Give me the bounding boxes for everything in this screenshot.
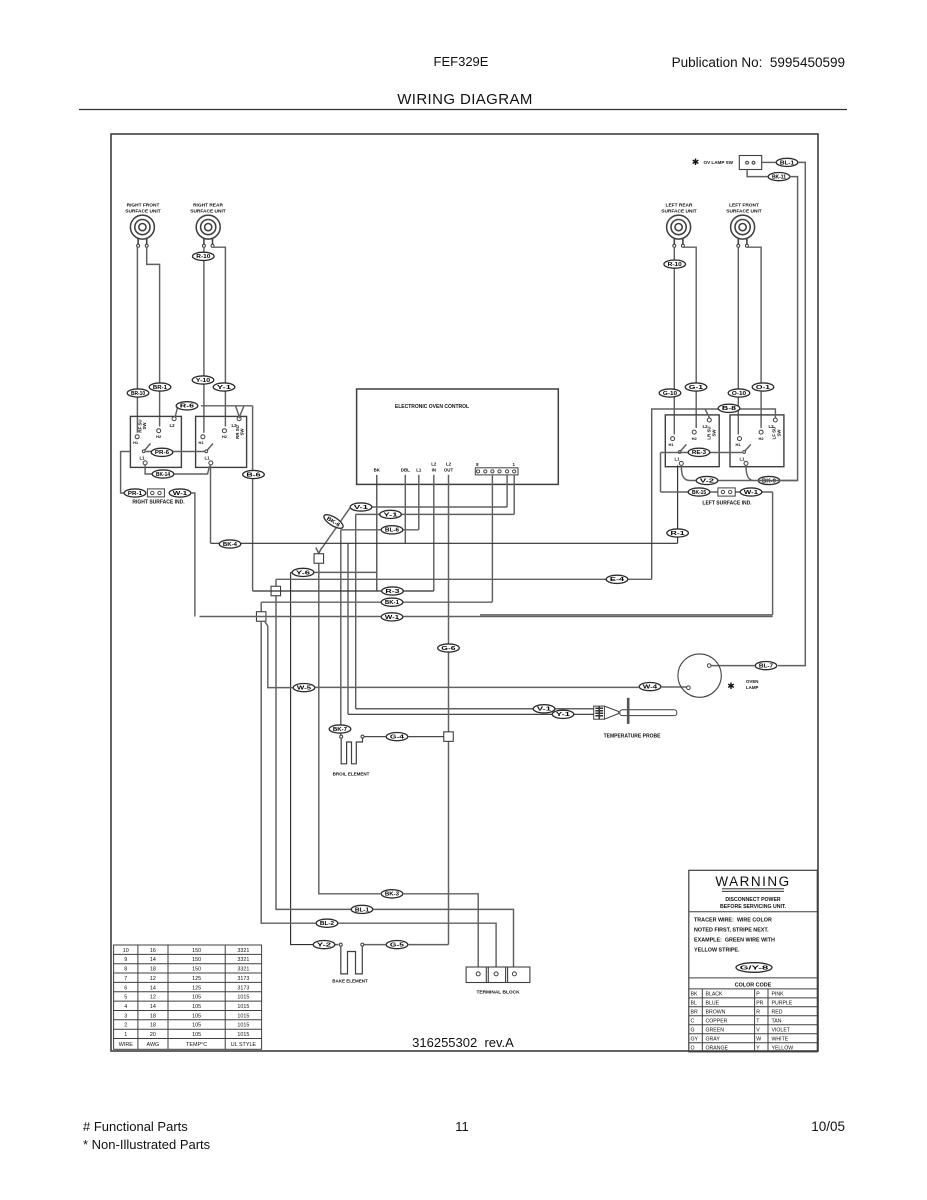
- svg-text:BR-10: BR-10: [131, 391, 145, 397]
- svg-text:R: R: [756, 1009, 760, 1015]
- svg-text:18: 18: [150, 967, 156, 973]
- wire label G-4: [386, 733, 408, 741]
- terminal LR H2: [692, 430, 696, 434]
- svg-text:BL-6: BL-6: [385, 528, 399, 534]
- wire R-6 row: [175, 406, 252, 591]
- warning divider 1: [689, 911, 818, 913]
- svg-text:7: 7: [124, 976, 127, 982]
- wire J3 down: [261, 621, 315, 923]
- wire label R-1: [667, 529, 689, 537]
- oven lamp: [678, 654, 721, 697]
- svg-text:RIGHT FRONT: RIGHT FRONT: [127, 203, 160, 209]
- wire J3 diagonal lamp: [265, 621, 293, 688]
- surface unit coil left rear surface unit: [667, 215, 691, 244]
- terminal LR L1: [679, 461, 683, 465]
- svg-text:150: 150: [192, 957, 201, 963]
- svg-text:316255302 rev.A: 316255302 rev.A: [412, 1035, 514, 1050]
- svg-text:NOTED FIRST, STRIPE NEXT.: NOTED FIRST, STRIPE NEXT.: [694, 928, 769, 934]
- svg-text:R-10: R-10: [196, 254, 210, 260]
- svg-text:EXAMPLE: GREEN WIRE WITH: EXAMPLE: GREEN WIRE WITH: [694, 938, 775, 944]
- temperature probe connector: [594, 706, 619, 719]
- bake element: [341, 946, 363, 974]
- wire label V-1: [350, 503, 372, 511]
- svg-text:B-6: B-6: [246, 472, 260, 478]
- svg-text:PR-6: PR-6: [155, 450, 169, 456]
- svg-text:3: 3: [124, 1013, 127, 1019]
- svg-text:YELLOW STRIPE.: YELLOW STRIPE.: [694, 948, 740, 954]
- svg-text:18: 18: [150, 1023, 156, 1029]
- svg-text:3321: 3321: [237, 967, 249, 973]
- wire label BK-7: [329, 725, 351, 733]
- svg-text:G-1: G-1: [689, 385, 703, 391]
- terminal lamp sw pin1: [746, 161, 749, 164]
- svg-text:H2: H2: [759, 436, 765, 441]
- wire label BK-15: [688, 488, 710, 496]
- svg-text:105: 105: [192, 995, 201, 1001]
- terminal EOC strip pin 4: [506, 470, 509, 473]
- wire RF row to indicator: [121, 452, 131, 494]
- wire title rule: [79, 109, 847, 111]
- svg-text:PINK: PINK: [772, 992, 785, 998]
- wire right rail down to lamp: [778, 162, 805, 665]
- switch LR SU SW box: [665, 415, 719, 467]
- terminal terminal block pin2: [494, 972, 498, 976]
- svg-text:105: 105: [192, 1013, 201, 1019]
- oven lamp switch box: [739, 156, 761, 170]
- svg-text:12: 12: [150, 995, 156, 1001]
- wire probe upper feeder h: [356, 708, 594, 710]
- wire label BK-6: [322, 512, 345, 531]
- svg-text:T: T: [756, 1018, 760, 1024]
- svg-text:VIOLET: VIOLET: [772, 1027, 791, 1033]
- wire row 603: [261, 602, 492, 612]
- svg-text:PR: PR: [756, 1001, 763, 1007]
- svg-text:COLOR CODE: COLOR CODE: [735, 983, 772, 989]
- temperature probe flange: [627, 698, 630, 724]
- svg-text:18: 18: [150, 1013, 156, 1019]
- terminal LF L2: [773, 418, 777, 422]
- svg-text:L2: L2: [169, 423, 175, 428]
- surface unit coil left front surface unit: [731, 215, 755, 244]
- wire lamp sw to right rail: [762, 161, 776, 163]
- wire row C: [339, 923, 497, 967]
- wire row A: [319, 563, 478, 967]
- svg-text:BL-2: BL-2: [320, 921, 334, 927]
- svg-text:SURFACE UNIT: SURFACE UNIT: [125, 209, 161, 215]
- terminal right rear surface unit term left: [202, 244, 205, 247]
- svg-text:WHITE: WHITE: [772, 1036, 789, 1042]
- terminal EOC strip pin 3: [498, 470, 501, 473]
- terminal right front surface unit term left: [137, 244, 140, 247]
- wire label BL-2: [316, 919, 338, 927]
- svg-text:TEMPERATURE PROBE: TEMPERATURE PROBE: [604, 734, 662, 740]
- svg-text:LEFT REAR: LEFT REAR: [666, 203, 693, 209]
- wire RF L1 drop row: [145, 465, 210, 474]
- svg-text:BK-15: BK-15: [692, 490, 706, 496]
- svg-text:BK-14: BK-14: [156, 472, 170, 478]
- wire row 579: [276, 578, 652, 580]
- wire row 613 double: [480, 614, 773, 616]
- wire label W-1 left ind: [740, 488, 762, 496]
- wire label Y-2: [313, 941, 335, 949]
- wire label Y-1 rr: [213, 383, 235, 391]
- indicator lamp right surface: [147, 489, 164, 497]
- svg-text:Y-1: Y-1: [217, 385, 231, 391]
- svg-text:DBL: DBL: [401, 468, 410, 473]
- svg-text:YELLOW: YELLOW: [772, 1045, 794, 1051]
- svg-text:TERMINAL BLOCK: TERMINAL BLOCK: [476, 990, 520, 996]
- svg-text:BK-3: BK-3: [385, 892, 399, 898]
- switch LF SU SW box: [730, 415, 784, 467]
- wire label Y-1 mid: [380, 510, 402, 518]
- svg-text:1: 1: [124, 1032, 127, 1038]
- svg-text:BK-1: BK-1: [385, 600, 399, 606]
- wire L2IN pin wire: [433, 475, 435, 591]
- svg-text:BL: BL: [691, 1001, 697, 1007]
- svg-text:G-4: G-4: [390, 735, 404, 741]
- svg-text:11: 11: [455, 1119, 469, 1134]
- terminal RR L1: [209, 461, 213, 465]
- svg-text:1: 1: [512, 462, 515, 467]
- junction junction J3: [256, 612, 266, 622]
- svg-text:14: 14: [150, 957, 156, 963]
- wire label W-4: [639, 683, 661, 691]
- svg-text:W-1: W-1: [744, 490, 758, 496]
- wire label R-3: [382, 587, 404, 595]
- wire RF switch arm: [144, 444, 151, 451]
- wire B-8 row: [652, 409, 776, 579]
- svg-text:G-5: G-5: [390, 943, 404, 949]
- wire row B: [374, 909, 514, 967]
- svg-text:H2: H2: [692, 436, 698, 441]
- svg-text:Y: Y: [756, 1045, 760, 1051]
- warning box: [689, 870, 818, 1051]
- wire LF switch arm: [744, 444, 750, 451]
- svg-text:G: G: [691, 1027, 695, 1033]
- wire left ind row: [661, 491, 773, 493]
- broil element: [341, 738, 362, 764]
- svg-text:L2: L2: [231, 423, 237, 428]
- wire label B-6: [243, 470, 265, 478]
- wire label BK-1: [381, 598, 403, 606]
- wire row 591: [253, 590, 434, 592]
- terminal LF H2: [759, 430, 763, 434]
- wire L1 row: [341, 530, 419, 735]
- svg-text:BK-4: BK-4: [223, 542, 237, 548]
- wire label BL-7: [755, 662, 777, 670]
- wire left ind row drop: [772, 492, 774, 615]
- svg-text:L2: L2: [702, 424, 708, 429]
- svg-text:TRACER WIRE: WIRE COLOR: TRACER WIRE: WIRE COLOR: [694, 918, 772, 924]
- wire label Y-6: [292, 568, 314, 576]
- wire label BK-14: [152, 470, 174, 478]
- wire BK pin wire: [376, 475, 378, 591]
- svg-text:R-1: R-1: [671, 531, 685, 537]
- svg-text:14: 14: [150, 1004, 156, 1010]
- svg-text:150: 150: [192, 967, 201, 973]
- svg-text:O-10: O-10: [732, 391, 746, 397]
- svg-text:✱: ✱: [692, 157, 700, 167]
- warning divider 2: [689, 977, 818, 979]
- terminal left front surface unit term left: [737, 244, 740, 247]
- terminal LF pivot: [743, 451, 746, 454]
- wire LR L1 branch row: [681, 465, 797, 480]
- svg-text:OUT: OUT: [444, 468, 454, 473]
- wire label BL-1 rowB: [351, 905, 373, 913]
- svg-text:BK: BK: [374, 468, 381, 473]
- svg-text:BK-7: BK-7: [333, 727, 347, 733]
- terminal right rear surface unit term right: [211, 244, 214, 247]
- svg-text:RED: RED: [772, 1009, 783, 1015]
- wire label PR-1: [124, 489, 146, 497]
- svg-text:Y-1: Y-1: [556, 712, 570, 718]
- terminal left rear surface unit term right: [681, 244, 684, 247]
- wire row D right: [335, 944, 449, 946]
- svg-text:E-4: E-4: [610, 577, 624, 583]
- terminal EOC strip pin 2: [491, 470, 494, 473]
- switch RF SU SW box: [130, 416, 181, 467]
- wire label O-10: [728, 389, 750, 397]
- svg-text:9: 9: [124, 957, 127, 963]
- svg-text:105: 105: [192, 1023, 201, 1029]
- svg-text:BK: BK: [691, 992, 698, 998]
- wire LR coil right lead: [683, 247, 696, 428]
- svg-text:RE-3: RE-3: [692, 450, 706, 456]
- svg-text:BL-1: BL-1: [780, 160, 794, 166]
- wire RF coil left lead: [136, 247, 138, 433]
- wire label G-5: [386, 941, 408, 949]
- svg-text:3173: 3173: [237, 985, 249, 991]
- svg-text:L2: L2: [768, 424, 774, 429]
- terminal broil term left: [340, 735, 343, 738]
- svg-text:R-10: R-10: [668, 262, 682, 268]
- svg-text:125: 125: [192, 976, 201, 982]
- svg-text:10/05: 10/05: [811, 1119, 845, 1134]
- svg-text:OVEN: OVEN: [746, 679, 758, 684]
- svg-text:V: V: [756, 1027, 760, 1033]
- svg-text:H1: H1: [198, 440, 204, 445]
- color code table text: [691, 992, 794, 1052]
- svg-text:SURFACE UNIT: SURFACE UNIT: [726, 209, 762, 215]
- wire gauge table text: [119, 948, 257, 1048]
- terminal LR pivot: [678, 451, 681, 454]
- color code table: [689, 989, 818, 1052]
- wire label Y-1 probe: [552, 710, 574, 718]
- junction junction J2: [271, 586, 281, 596]
- svg-text:BL-1: BL-1: [355, 907, 369, 913]
- wire RR switch arm: [207, 444, 213, 451]
- wire lamp right lead: [711, 665, 755, 667]
- wire LR coil left lead: [673, 247, 675, 434]
- svg-text:PURPLE: PURPLE: [772, 1001, 793, 1007]
- surface unit coil right front surface unit: [130, 215, 154, 244]
- wire LR switch arm: [680, 444, 686, 451]
- wire LF coil right lead: [747, 247, 761, 428]
- wire row 579 left drop: [276, 579, 351, 909]
- wire label G/Y-8 example: [736, 963, 772, 973]
- svg-text:WIRE: WIRE: [119, 1042, 133, 1048]
- svg-text:H1: H1: [735, 442, 741, 447]
- svg-text:FEF329E: FEF329E: [434, 54, 489, 69]
- wire label W-1 row: [381, 613, 403, 621]
- svg-text:ELECTRONIC OVEN CONTROL: ELECTRONIC OVEN CONTROL: [395, 404, 469, 410]
- terminal LR H1: [671, 437, 675, 441]
- terminal LR L2: [707, 418, 711, 422]
- terminal lamp sw pin2: [752, 161, 755, 164]
- svg-text:TAN: TAN: [772, 1018, 782, 1024]
- terminal right front surface unit term right: [145, 244, 148, 247]
- wire label BK-9: [758, 476, 780, 484]
- svg-text:6: 6: [124, 985, 127, 991]
- svg-text:BL-7: BL-7: [759, 664, 773, 670]
- svg-text:14: 14: [150, 985, 156, 991]
- svg-text:COPPER: COPPER: [706, 1018, 728, 1024]
- svg-text:1015: 1015: [237, 1032, 249, 1038]
- svg-text:105: 105: [192, 1032, 201, 1038]
- svg-text:TEMP°C: TEMP°C: [186, 1042, 207, 1048]
- terminal terminal block pin3: [512, 972, 516, 976]
- svg-text:10: 10: [123, 948, 129, 954]
- svg-text:PR-1: PR-1: [128, 491, 142, 497]
- wire label W-5: [293, 684, 315, 692]
- svg-text:V-1: V-1: [354, 505, 368, 511]
- wire LF coil left lead: [737, 247, 739, 434]
- svg-text:3173: 3173: [237, 976, 249, 982]
- wire label Y-10 rr: [192, 376, 214, 384]
- svg-text:W-1: W-1: [173, 491, 187, 497]
- terminal block: [466, 967, 530, 983]
- svg-text:L1: L1: [204, 456, 210, 461]
- svg-text:G/Y-8: G/Y-8: [740, 965, 769, 971]
- terminal RR pivot: [205, 450, 208, 453]
- svg-text:P: P: [756, 992, 760, 998]
- terminal RF H1: [135, 435, 139, 439]
- svg-text:V-2: V-2: [700, 478, 714, 484]
- wire RF-RR pivot link: [146, 451, 205, 453]
- wire label B-8: [718, 404, 740, 412]
- wire label G-6: [438, 644, 460, 652]
- svg-text:L2: L2: [431, 462, 437, 467]
- svg-text:Publication No: 5995450599: Publication No: 5995450599: [672, 55, 845, 70]
- svg-text:WIRING DIAGRAM: WIRING DIAGRAM: [397, 91, 533, 108]
- wire L1 pin wire: [418, 475, 420, 530]
- terminal lamp term upper: [707, 664, 711, 668]
- wire RF coil right lead: [147, 247, 160, 426]
- svg-text:Y-6: Y-6: [296, 570, 310, 576]
- svg-text:# Functional Parts: # Functional Parts: [83, 1119, 188, 1134]
- terminal bake term right: [361, 943, 364, 946]
- wire label V-2: [696, 476, 718, 484]
- svg-text:BROWN: BROWN: [706, 1009, 726, 1015]
- svg-text:L2: L2: [446, 462, 452, 467]
- wire LR L1 drop: [677, 465, 679, 543]
- wire label PR-6: [151, 448, 173, 456]
- svg-text:OV LAMP SW: OV LAMP SW: [704, 160, 734, 165]
- svg-text:V-1: V-1: [537, 707, 551, 713]
- EOC connector strip: [475, 468, 518, 475]
- wire label BK-11: [768, 173, 790, 181]
- svg-text:* Non-Illustrated Parts: * Non-Illustrated Parts: [83, 1137, 211, 1152]
- wire label G-1: [685, 383, 707, 391]
- wire row 543: [211, 542, 678, 544]
- svg-text:Y-2: Y-2: [317, 943, 331, 949]
- svg-text:1015: 1015: [237, 1023, 249, 1029]
- terminal RF H2: [157, 429, 161, 433]
- svg-text:GRAY: GRAY: [706, 1036, 721, 1042]
- terminal RR L2: [237, 417, 241, 421]
- terminal left rear surface unit term left: [673, 244, 676, 247]
- svg-text:Y-1: Y-1: [383, 512, 397, 518]
- wire label R-6: [176, 402, 198, 410]
- svg-text:DISCONNECT POWER: DISCONNECT POWER: [725, 897, 781, 903]
- wire label G-10: [659, 389, 681, 397]
- svg-text:SW: SW: [712, 429, 717, 437]
- wire label BK-4: [219, 540, 241, 548]
- svg-text:RIGHT SURFACE IND.: RIGHT SURFACE IND.: [132, 500, 185, 506]
- svg-text:H1: H1: [668, 442, 674, 447]
- wire row 572: [291, 571, 377, 573]
- svg-text:GY: GY: [691, 1036, 699, 1042]
- wire row 616: [200, 616, 773, 618]
- svg-text:105: 105: [192, 1004, 201, 1010]
- wire indicator row to drop: [192, 493, 195, 617]
- svg-text:L1: L1: [674, 457, 680, 462]
- svg-text:R-3: R-3: [385, 589, 399, 595]
- svg-text:ORANGE: ORANGE: [706, 1045, 729, 1051]
- svg-text:WARNING: WARNING: [715, 874, 790, 889]
- wire probe lower feeder h: [348, 713, 594, 715]
- svg-text:BK-9: BK-9: [762, 478, 776, 484]
- svg-text:4: 4: [124, 1004, 127, 1010]
- surface unit coil right rear surface unit: [196, 215, 220, 244]
- svg-text:C: C: [691, 1018, 695, 1024]
- svg-text:W-1: W-1: [385, 615, 399, 621]
- wire label V-1 probe: [533, 705, 555, 713]
- svg-text:H2: H2: [156, 434, 162, 439]
- svg-text:R-6: R-6: [180, 404, 194, 410]
- wire row 572 drop: [291, 572, 313, 944]
- svg-text:LAMP: LAMP: [746, 685, 759, 690]
- switch RR SU SW box: [196, 416, 247, 467]
- wire gauge table: [114, 945, 262, 1049]
- svg-text:20: 20: [150, 1032, 156, 1038]
- svg-text:150: 150: [192, 948, 201, 954]
- wire RR coil left lead: [203, 247, 205, 433]
- terminal RR H1: [201, 435, 205, 439]
- wire lamp sw lower lead: [747, 170, 768, 177]
- wire label BR-10: [127, 389, 149, 397]
- svg-text:BLUE: BLUE: [706, 1001, 720, 1007]
- wire probe upper feeder: [355, 514, 357, 708]
- wire label BL-1: [776, 158, 798, 166]
- diagram border frame: [111, 134, 818, 1051]
- wire label BK-3: [381, 890, 403, 898]
- wire DBL pin wire: [404, 475, 406, 543]
- terminal EOC strip pin 0: [477, 470, 480, 473]
- svg-text:12: 12: [150, 976, 156, 982]
- wire label W-1 ind: [169, 489, 191, 497]
- svg-text:L1: L1: [139, 456, 145, 461]
- svg-text:L1: L1: [416, 468, 422, 473]
- svg-text:W: W: [756, 1036, 761, 1042]
- svg-text:O-1: O-1: [756, 385, 770, 391]
- terminal broil term right: [361, 735, 364, 738]
- terminal EOC strip pin 5: [513, 470, 516, 473]
- wire lamp sw lower rail down: [781, 177, 798, 481]
- warning underline: [722, 889, 784, 892]
- svg-text:5: 5: [124, 995, 127, 1001]
- svg-text:1015: 1015: [237, 1013, 249, 1019]
